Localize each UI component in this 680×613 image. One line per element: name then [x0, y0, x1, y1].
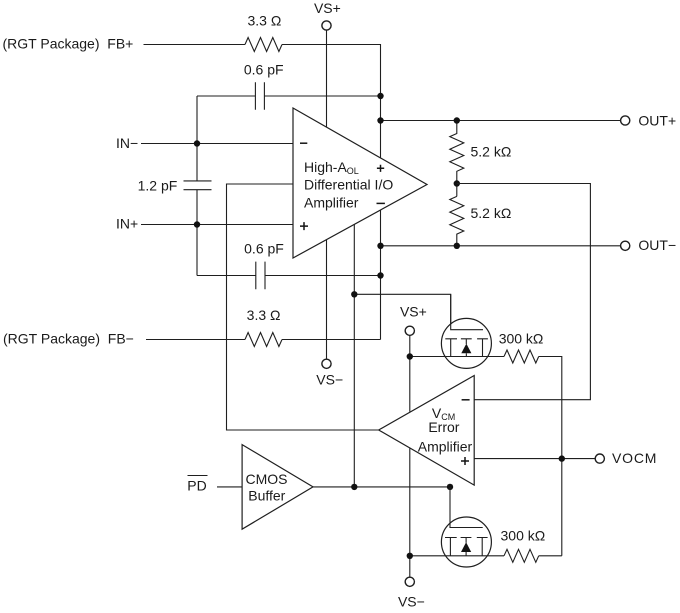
terminal VOCM — [595, 454, 604, 463]
svg-text:OUT−: OUT− — [638, 237, 676, 253]
svg-text:VOCM: VOCM — [612, 450, 657, 466]
op-amp U2 Vcm error amplifier — [379, 376, 475, 486]
svg-text:Amplifier: Amplifier — [418, 438, 473, 454]
resistor 5.2k top — [450, 121, 464, 197]
wire left vertical bus — [196, 96, 198, 276]
svg-text:0.6 pF: 0.6 pF — [244, 61, 284, 77]
label + input error amp — [461, 457, 469, 465]
wire PD branch to top mosfet gate — [354, 294, 483, 329]
wire 300k to vocm rail — [539, 357, 562, 556]
wire VS- node to 300k bottom — [410, 555, 504, 557]
svg-text:5.2 kΩ: 5.2 kΩ — [471, 143, 512, 159]
terminal VS+ error amp — [405, 326, 414, 335]
node resistor divider — [454, 117, 460, 123]
svg-text:PD: PD — [187, 478, 206, 494]
node IN+ junction — [194, 221, 200, 227]
wire VS+ down to error amp — [409, 336, 411, 412]
resistor 3.3 ohm top — [245, 38, 282, 52]
wire FB- to resistor — [146, 339, 245, 341]
svg-text:CMOS: CMOS — [246, 471, 288, 487]
svg-text:3.3 Ω: 3.3 Ω — [247, 307, 281, 323]
node out+ — [377, 93, 383, 99]
svg-text:Amplifier: Amplifier — [304, 195, 359, 211]
resistor 3.3 ohm bottom — [245, 333, 282, 347]
svg-text:1.2 pF: 1.2 pF — [138, 178, 178, 194]
svg-text:Buffer: Buffer — [248, 488, 285, 504]
label - input — [300, 142, 307, 144]
wire PD input — [217, 486, 242, 488]
wire resistor to out- node line — [282, 339, 381, 341]
svg-text:VS−: VS− — [316, 371, 343, 387]
terminal OUT- — [621, 241, 630, 250]
label + input — [300, 222, 308, 230]
wire VS- to amp bottom edge — [326, 240, 328, 359]
svg-text:(RGT Package) FB−: (RGT Package) FB− — [3, 330, 134, 346]
wire VS+ node to 300k top — [410, 356, 504, 358]
wire IN+ to amp — [141, 224, 293, 226]
resistor 300k top — [504, 350, 539, 363]
svg-text:0.6 pF: 0.6 pF — [244, 241, 284, 257]
wire resistor to output node, down to amp + output edge — [282, 45, 381, 159]
wire center tap to error amp inverting input — [457, 184, 591, 400]
terminal OUT+ — [621, 116, 630, 125]
wire PD rail up to amp bottom edge — [353, 224, 355, 487]
svg-text:300 kΩ: 300 kΩ — [501, 527, 546, 543]
label - output — [377, 202, 385, 204]
terminal VS- bottom — [405, 577, 414, 586]
wire VOCM — [474, 458, 595, 460]
svg-text:Differential I/O: Differential I/O — [304, 177, 393, 193]
buffer U3 CMOS buffer — [242, 445, 313, 530]
terminal VS+ top — [322, 21, 331, 30]
svg-text:IN+: IN+ — [116, 216, 138, 232]
svg-text:OUT+: OUT+ — [638, 112, 676, 128]
label + output — [377, 165, 384, 172]
svg-text:300 kΩ: 300 kΩ — [499, 330, 544, 346]
transistor M2 bottom mosfet — [441, 517, 491, 567]
wire FB+ to resistor — [144, 44, 246, 46]
label - input error amp — [462, 399, 470, 401]
wire VS- error amp — [409, 448, 411, 577]
svg-text:(RGT Package) FB+: (RGT Package) FB+ — [3, 36, 134, 52]
wire 300k bottom to vocm rail — [539, 555, 562, 557]
svg-text:VS+: VS+ — [314, 0, 341, 16]
wire OUT- line — [381, 245, 621, 247]
svg-text:5.2 kΩ: 5.2 kΩ — [471, 205, 512, 221]
wire buffer output — [313, 486, 450, 488]
transistor M1 top mosfet — [441, 318, 491, 368]
wire VS+ to amp top edge — [326, 30, 328, 127]
wire out- node vertical — [380, 210, 382, 340]
wire Vocm error amp output to amp mid input — [227, 184, 379, 430]
node IN- junction — [194, 140, 200, 146]
svg-text:Error: Error — [428, 419, 459, 435]
op-amp U1 main differential amplifier — [293, 108, 427, 258]
terminal VS- main — [322, 359, 331, 368]
svg-text:3.3 Ω: 3.3 Ω — [247, 12, 281, 28]
resistor 5.2k bottom — [450, 196, 464, 245]
wire OUT+ line — [381, 120, 621, 122]
wire IN- to amp — [141, 143, 293, 145]
resistor 300k bottom — [504, 549, 539, 562]
svg-text:VS+: VS+ — [400, 304, 427, 320]
svg-text:VS−: VS− — [398, 594, 425, 610]
svg-text:IN−: IN− — [116, 135, 138, 151]
